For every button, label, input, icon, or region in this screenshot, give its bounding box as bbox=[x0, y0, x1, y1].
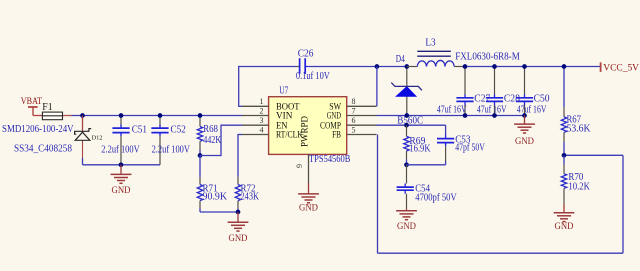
svg-text:R68: R68 bbox=[203, 124, 218, 135]
pin number 3 bbox=[260, 116, 264, 125]
svg-text:F1: F1 bbox=[42, 102, 52, 113]
svg-text:8: 8 bbox=[352, 97, 356, 106]
pin name COMP bbox=[320, 121, 341, 131]
pin number 1 bbox=[260, 97, 264, 106]
node R68 top bbox=[198, 113, 203, 118]
capacitor C51 bbox=[112, 116, 147, 165]
svg-text:47uf 16V: 47uf 16V bbox=[477, 105, 507, 116]
node R68 bottom EN bbox=[198, 153, 203, 158]
pin number 5 bbox=[352, 125, 356, 134]
svg-text:C50: C50 bbox=[534, 94, 550, 105]
diode D4 bbox=[391, 54, 422, 96]
pin 7 stub bbox=[347, 115, 377, 117]
svg-text:5: 5 bbox=[352, 125, 356, 134]
pin name BOOT bbox=[276, 103, 300, 113]
svg-text:VBAT: VBAT bbox=[21, 97, 42, 107]
node C50 bottom bbox=[522, 113, 527, 118]
ground at output caps bbox=[514, 116, 535, 148]
diode D12 value label bbox=[14, 144, 72, 155]
node C50 top bbox=[522, 64, 527, 69]
wire SW to pin 8 bbox=[376, 67, 378, 107]
pin number 4 bbox=[260, 125, 264, 134]
pin 3 stub bbox=[242, 124, 269, 126]
node SW bbox=[375, 64, 380, 69]
node R72 gnd bbox=[236, 210, 241, 215]
ground at C51 bbox=[111, 165, 132, 196]
svg-text:4700pf 50V: 4700pf 50V bbox=[415, 192, 457, 203]
node D4 anode bbox=[404, 113, 409, 118]
resistor R71 bbox=[197, 156, 228, 213]
diode D4 lead bbox=[406, 67, 408, 116]
node C28 bottom bbox=[492, 113, 497, 118]
wire input gnd rail bbox=[83, 164, 161, 166]
svg-text:GND: GND bbox=[555, 222, 574, 232]
svg-text:2.2uf 100V: 2.2uf 100V bbox=[101, 144, 140, 155]
pin name FB bbox=[332, 131, 341, 141]
pin name PWRPD bbox=[301, 116, 311, 147]
svg-text:53.6K: 53.6K bbox=[567, 123, 592, 134]
capacitor C54 bbox=[397, 165, 430, 209]
node FB divider bbox=[562, 153, 567, 158]
node R67 top bbox=[562, 64, 567, 69]
svg-text:16.9K: 16.9K bbox=[409, 144, 431, 155]
ground at C54 bbox=[396, 208, 417, 232]
wire VCC rail bbox=[465, 66, 601, 68]
pin 4 stub bbox=[242, 134, 269, 136]
svg-text:3: 3 bbox=[260, 116, 264, 125]
resistor R69 bbox=[404, 125, 431, 165]
op-amp U7 body TPS54560B bbox=[269, 97, 347, 155]
node C52 top bbox=[158, 113, 163, 118]
pin name SW bbox=[329, 103, 341, 113]
svg-text:D12: D12 bbox=[92, 134, 103, 141]
inductor L3 bbox=[407, 37, 465, 66]
capacitor C26 bbox=[296, 48, 313, 73]
wire RT/CLK net bbox=[237, 135, 242, 177]
node C27 top bbox=[463, 64, 468, 69]
svg-text:47uf 16V: 47uf 16V bbox=[437, 105, 467, 116]
node R69 top bbox=[404, 123, 409, 128]
fuse F1 value label bbox=[2, 124, 74, 135]
svg-text:U7: U7 bbox=[279, 85, 288, 96]
svg-text:2: 2 bbox=[260, 106, 264, 115]
node D4 top bbox=[404, 64, 409, 69]
pin 2 stub bbox=[242, 115, 269, 117]
svg-text:47pf 50V: 47pf 50V bbox=[455, 142, 485, 153]
svg-text:GND: GND bbox=[112, 186, 131, 196]
power port VCC_5V bbox=[601, 62, 640, 73]
svg-text:PWRPD: PWRPD bbox=[301, 116, 311, 147]
svg-text:GND: GND bbox=[327, 112, 341, 122]
resistor R72 bbox=[235, 177, 259, 212]
pin name GND bbox=[327, 112, 341, 122]
svg-text:GND: GND bbox=[299, 204, 318, 214]
resistor R67 bbox=[561, 67, 591, 156]
pin number 6 bbox=[352, 116, 356, 125]
capacitor C28 bbox=[486, 67, 520, 116]
wire power gnd rail bbox=[377, 115, 525, 117]
wire FB net bbox=[378, 135, 624, 254]
svg-text:C51: C51 bbox=[132, 125, 147, 136]
capacitor C27 bbox=[456, 67, 490, 116]
svg-text:10.2K: 10.2K bbox=[568, 182, 590, 193]
ground at R70 bbox=[554, 203, 575, 232]
pin number 7 bbox=[352, 106, 356, 115]
svg-text:6: 6 bbox=[352, 116, 356, 125]
capacitor C52 bbox=[151, 116, 185, 165]
capacitor C27 value bbox=[437, 105, 467, 116]
wire D12 leads bbox=[82, 116, 84, 165]
pin 6 stub bbox=[347, 124, 377, 126]
node fuse junction bbox=[80, 113, 85, 118]
svg-text:GND: GND bbox=[515, 137, 534, 147]
pin name EN bbox=[276, 121, 288, 131]
inductor L3 value bbox=[455, 52, 520, 63]
pin number 9 bbox=[295, 164, 304, 168]
wire SW rail bbox=[309, 66, 407, 68]
svg-text:FXL0630-6R8-M: FXL0630-6R8-M bbox=[455, 52, 520, 63]
svg-text:47uf 16V: 47uf 16V bbox=[517, 105, 547, 116]
capacitor C51 value bbox=[101, 144, 140, 155]
resistor R68 bbox=[197, 116, 222, 156]
svg-text:VCC_5V: VCC_5V bbox=[603, 64, 639, 74]
node C51 bottom bbox=[119, 162, 124, 167]
svg-text:C28: C28 bbox=[504, 94, 520, 105]
svg-text:D4: D4 bbox=[396, 54, 405, 65]
pin number 2 bbox=[260, 106, 264, 115]
fuse F1 bbox=[42, 102, 71, 120]
svg-text:GND: GND bbox=[397, 222, 416, 232]
capacitor C50 value bbox=[517, 105, 547, 116]
svg-text:243K: 243K bbox=[241, 192, 260, 203]
svg-text:FB: FB bbox=[332, 131, 341, 141]
svg-text:GND: GND bbox=[229, 234, 248, 244]
resistor R70 bbox=[561, 155, 590, 203]
wire BOOT to C26 bbox=[239, 66, 296, 107]
wire COMP net bbox=[377, 125, 446, 135]
svg-text:442K: 442K bbox=[203, 135, 222, 146]
wire VBAT rail bbox=[72, 115, 243, 117]
U7 value label TPS54560B bbox=[309, 154, 351, 165]
svg-text:RT/CLK: RT/CLK bbox=[276, 131, 303, 141]
node C51 top bbox=[119, 113, 124, 118]
svg-text:SMD1206-100-24V: SMD1206-100-24V bbox=[2, 124, 74, 135]
svg-text:4: 4 bbox=[260, 125, 264, 134]
svg-text:VIN: VIN bbox=[276, 112, 293, 122]
ground at pin 9 bbox=[298, 183, 319, 214]
capacitor C53 value bbox=[455, 142, 485, 153]
capacitor C52 value bbox=[152, 144, 191, 155]
node R69 bottom bbox=[404, 162, 409, 167]
svg-text:TPS54560B: TPS54560B bbox=[309, 154, 351, 165]
wire EN net bbox=[200, 125, 242, 157]
U7 designator label bbox=[279, 85, 288, 96]
svg-text:C26: C26 bbox=[298, 48, 314, 59]
pin 8 stub bbox=[347, 105, 377, 107]
pin name RT/CLK bbox=[276, 131, 303, 141]
svg-text:1: 1 bbox=[260, 97, 264, 106]
svg-text:9: 9 bbox=[295, 164, 304, 168]
pin number 8 bbox=[352, 97, 356, 106]
diode D4 value label bbox=[397, 116, 423, 127]
svg-text:7: 7 bbox=[352, 106, 356, 115]
wire C53 bottom to R69 bbox=[407, 164, 446, 166]
ground at R72 bbox=[228, 212, 249, 244]
svg-text:C27: C27 bbox=[474, 94, 490, 105]
capacitor C53 bbox=[437, 134, 471, 164]
capacitor C28 value bbox=[477, 105, 507, 116]
power port VBAT bbox=[21, 97, 42, 116]
pin 5 stub bbox=[347, 134, 377, 136]
capacitor C50 bbox=[516, 67, 550, 116]
pin 9 stub bbox=[308, 154, 310, 183]
pin name VIN bbox=[276, 112, 293, 122]
capacitor C26 value bbox=[296, 71, 331, 82]
svg-text:90.9K: 90.9K bbox=[203, 192, 228, 203]
node C27 bottom bbox=[463, 113, 468, 118]
pin 1 stub bbox=[242, 105, 269, 107]
svg-text:SS34_C408258: SS34_C408258 bbox=[14, 144, 72, 155]
wire R71-R72 gnd rail bbox=[200, 211, 238, 213]
diode D12 bbox=[75, 129, 103, 142]
svg-text:2.2uf 100V: 2.2uf 100V bbox=[152, 144, 191, 155]
svg-text:L3: L3 bbox=[425, 37, 435, 48]
node C28 top bbox=[492, 64, 497, 69]
svg-text:0.1uf 10V: 0.1uf 10V bbox=[296, 71, 331, 82]
svg-text:C52: C52 bbox=[171, 125, 186, 136]
capacitor C54 value bbox=[415, 192, 457, 203]
